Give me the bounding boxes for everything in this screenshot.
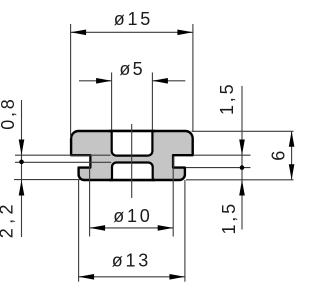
lower cavity: [112, 163, 153, 182]
ext line membrane top (0,8): [15, 154, 111, 156]
ext line membrane bottom (0,8): [15, 161, 111, 163]
arrow 0,8 down: [19, 140, 25, 156]
body top edge across hole: [109, 130, 155, 132]
svg-text:ø10: ø10: [113, 206, 152, 226]
dim line Ø15: [71, 31, 193, 33]
ext line Ø10 right: [172, 156, 174, 237]
arrow 2,2 up: [19, 180, 25, 196]
arrow Ø5 left (outside, points right): [96, 78, 112, 84]
arrow Ø10 right: [158, 225, 174, 231]
arrow Ø13 left: [79, 274, 95, 280]
svg-text:2,2: 2,2: [0, 200, 16, 238]
dot 1,5: [240, 165, 245, 170]
ext line Ø5 left: [111, 73, 113, 131]
left dim vertical: [21, 100, 23, 237]
dim tail Ø5 left: [79, 80, 112, 82]
ext line body bottom right (6 / 1,5): [186, 179, 294, 181]
dim line Ø13: [79, 276, 185, 278]
ext line Ø5 right: [151, 73, 153, 131]
arrow 6 down: [289, 164, 295, 180]
ext line Ø13 right: [184, 180, 186, 282]
body bottom edge across hole: [109, 179, 155, 181]
svg-text:ø15: ø15: [114, 9, 153, 29]
svg-text:1,5: 1,5: [219, 201, 239, 234]
svg-text:ø13: ø13: [112, 251, 151, 271]
dim line 6: [291, 131, 293, 180]
arrow 1,5 top down: [239, 140, 245, 156]
arrow Ø13 right: [169, 274, 185, 280]
upper cavity (hole Ø5): [112, 130, 153, 156]
svg-text:1,5: 1,5: [217, 82, 237, 115]
ext line body bottom left (2,2): [14, 179, 80, 181]
svg-text:6: 6: [268, 149, 288, 161]
ext line Ø13 left: [78, 180, 80, 282]
dot 0,8 / 2,2: [19, 160, 24, 165]
ext line Ø10 left: [89, 156, 91, 237]
dim line Ø10: [90, 227, 174, 229]
arrow Ø15 right: [177, 30, 193, 36]
arrow Ø15 left: [71, 30, 87, 36]
ext line flange underside right (1,5): [193, 154, 251, 156]
ext line Ø15 right: [192, 24, 194, 132]
ext line groove bottom right (1,5): [186, 167, 251, 169]
arrow Ø10 left: [90, 225, 106, 231]
arrow Ø5 right (outside, points left): [152, 78, 168, 84]
dim tail Ø5 right: [152, 80, 185, 82]
svg-text:0,8: 0,8: [0, 96, 18, 129]
ext line top right (6 / 1,5): [192, 130, 294, 132]
right dim vertical 1,5: [241, 86, 243, 230]
arrow 1,5 bottom up: [239, 180, 245, 196]
ext line Ø15 left: [70, 24, 72, 138]
arrow 6 up: [289, 131, 295, 147]
centerline: [131, 124, 133, 198]
svg-text:ø5: ø5: [119, 59, 144, 79]
grommet body outer profile: [71, 131, 193, 180]
